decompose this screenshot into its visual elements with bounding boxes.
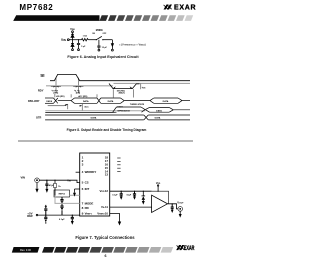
svg-text:INT: INT (85, 187, 90, 191)
capacitor C11 output (171, 204, 174, 210)
svg-text:6: 6 (82, 187, 84, 191)
C3 value label (49, 184, 55, 187)
svg-text:5 pF: 5 pF (81, 46, 86, 48)
ground under C3 (45, 189, 48, 193)
svg-text:CS: CS (85, 181, 89, 185)
svg-text:12: 12 (105, 189, 109, 193)
svg-text:DATA: DATA (108, 100, 114, 103)
svg-text:RDY: RDY (38, 89, 44, 93)
ground terminal under C2 (98, 49, 100, 51)
C1 value label (81, 46, 86, 48)
notch right timing tick (141, 84, 146, 90)
bus row3 tri-state line 2 (124, 101, 150, 106)
wire R1 to switch (88, 39, 96, 41)
reference wire to U1 pin9 (38, 214, 80, 216)
capacitor C1 5pF (77, 40, 80, 49)
U1 left pin numbers (82, 156, 84, 216)
svg-text:1 kΩ: 1 kΩ (83, 36, 88, 38)
bus row3 tri-state line 1 (58, 100, 71, 102)
row4 three-state line (45, 111, 112, 113)
capacitor C7 under U2 (60, 197, 63, 204)
wire U1 pin11 to op-amp input (110, 206, 152, 208)
RDY gray level right (114, 82, 191, 84)
VOUT label (177, 200, 184, 204)
U1 right pin numbers (105, 156, 109, 216)
gray net from U2 to U1 pin6 area (70, 194, 80, 196)
row4 hexagon close (117, 107, 146, 112)
svg-text:EXAR: EXAR (184, 245, 195, 252)
svg-text:Figure 7. Typical Connections: Figure 7. Typical Connections (75, 235, 135, 240)
VDD label op-amp supply (156, 182, 161, 185)
wire D1 to input node (72, 37, 74, 39)
VDD terminal (72, 31, 74, 33)
figure 7: typical connections (21, 153, 185, 226)
switch S1 label (96, 29, 104, 32)
C9 value label (112, 195, 118, 197)
svg-text:0.1µF: 0.1µF (112, 195, 118, 197)
header bar solid black swoosh (13, 15, 99, 21)
stub on U1 pin4 (76, 171, 80, 173)
svg-text:tDIS: tDIS (142, 86, 146, 89)
svg-text:11: 11 (105, 205, 108, 209)
svg-text:ON: ON (92, 33, 95, 35)
feedback loop wire (152, 191, 169, 204)
bus row3 transition X5 open (150, 98, 154, 103)
op-amp output wire (168, 204, 178, 209)
node bypass 1 (121, 191, 122, 192)
svg-text:10: 10 (105, 212, 109, 216)
svg-text:VDD: VDD (70, 27, 75, 31)
svg-text:VIN: VIN (21, 176, 26, 180)
bus row3 transition X3 (97, 98, 101, 103)
ground under D3 (142, 201, 145, 205)
diode D1 (clamp to VDD) (71, 34, 74, 37)
svg-text:RD: RD (41, 74, 45, 78)
RDY gray level left (46, 85, 113, 87)
bus row3 hexagon segment 3 (101, 98, 121, 103)
row4 high impedance hexagon open (113, 107, 117, 112)
bus row3 tri-state line 3 (182, 100, 190, 102)
svg-text:REF: REF (27, 214, 33, 218)
C10 value label (126, 195, 132, 197)
svg-text:DATA: DATA (156, 109, 162, 112)
ground under C11 (171, 210, 174, 213)
timing label t1H t0H (52, 89, 59, 95)
wire VDD to diode D1 (72, 33, 74, 35)
output connector J2 (178, 207, 183, 212)
svg-text:MP7682: MP7682 (19, 3, 53, 12)
capacitor C3 input filter (45, 180, 48, 189)
wire switch to sample node (103, 39, 113, 41)
header part number MP7682 (19, 3, 53, 12)
ground under J1 (35, 183, 38, 193)
VDD supply rail from U1 pin12 (110, 190, 152, 192)
node for resistor branch (54, 180, 55, 181)
bus row3 transition X2 open (71, 98, 75, 103)
figure 8: output enable and disable timing diagram (28, 74, 190, 120)
svg-text:7: 7 (82, 201, 84, 205)
bus row3 hexagon segment 2 (75, 98, 98, 103)
row5 transition X (144, 115, 149, 120)
row5 data hexagon long (45, 115, 144, 120)
footer stripe band (42, 247, 173, 253)
tDIS dimension label above bus (55, 94, 65, 98)
svg-text:DATA: DATA (155, 117, 161, 120)
timing label t1L t0L (74, 89, 80, 95)
capacitor C4 polarized upper (44, 205, 47, 215)
row5 data hexagon right (148, 115, 190, 120)
arrow into marker t2 (73, 86, 83, 88)
analog input label (21, 176, 26, 180)
EXAR logo footer (176, 245, 194, 252)
capacitor C8 under C7 (60, 204, 63, 216)
U1 right pin labels (97, 189, 105, 216)
R2 value label (58, 186, 61, 188)
notch left arrowhead (113, 86, 116, 88)
ground under C9 (120, 196, 123, 199)
svg-text:10µF: 10µF (126, 195, 132, 197)
svg-text:3: 3 (82, 163, 84, 167)
dimension arrow between rows (48, 104, 68, 109)
input connector J1 (35, 178, 40, 183)
header stripe band (100, 15, 194, 21)
data bus stub marks pins 18-14 (117, 158, 120, 172)
signal RD label with overline (40, 74, 44, 78)
VDD drop wire (157, 186, 159, 191)
node after VIN junction (78, 39, 79, 40)
VDD label (70, 27, 75, 31)
svg-text:VREF1: VREF1 (85, 212, 93, 216)
svg-text:5: 5 (82, 181, 84, 185)
svg-text:DATA: DATA (163, 100, 169, 103)
capacitor C9 bypass (120, 191, 123, 196)
wire VIN to resistor R1 (69, 39, 81, 41)
row4 transition X close (169, 107, 173, 112)
svg-text:Rev. 3.00: Rev. 3.00 (20, 248, 31, 252)
row4 tri-state line right (173, 109, 190, 111)
ground under J2 (179, 211, 182, 217)
svg-text:OFF: OFF (103, 33, 108, 35)
svg-text:6: 6 (105, 254, 107, 258)
svg-text:DATA: DATA (91, 117, 97, 120)
svg-text:VIN: VIN (61, 38, 66, 42)
arrow into marker t1 (51, 86, 61, 88)
switch S1 (96, 36, 104, 40)
notch marker line right (133, 89, 135, 97)
svg-text:(EN): (EN) (76, 93, 81, 95)
svg-text:WR/RDY: WR/RDY (85, 170, 97, 174)
timing marker line t1 (55, 78, 57, 94)
svg-text:1k: 1k (58, 186, 61, 188)
VIN terminal (67, 39, 69, 41)
threshold output label (119, 42, 146, 46)
node output (172, 203, 173, 204)
capacitor C5 polarized lower (44, 215, 47, 224)
bus row3 transition X4 close (121, 98, 125, 103)
svg-text:tACC (RD): tACC (RD) (78, 95, 88, 98)
signal RD waveform (50, 74, 190, 80)
IC U1 MP7682 body (80, 153, 110, 216)
wire J1 to U1 pin5 (39, 180, 79, 182)
svg-text:DATA: DATA (46, 100, 52, 103)
svg-text:OTR: OTR (36, 116, 41, 119)
svg-text:REF02: REF02 (59, 194, 66, 196)
resistor R2 vertical (54, 180, 57, 195)
R1 value label (83, 36, 88, 38)
capacitor C10 bypass (133, 191, 136, 196)
bus row3 transition X6 close (178, 98, 182, 103)
node VDD on rail (158, 191, 159, 192)
svg-text:DATA: DATA (83, 100, 89, 103)
svg-text:(DIS): (DIS) (53, 93, 58, 95)
notch timing label (117, 89, 125, 94)
notch marker line left (112, 89, 114, 97)
svg-text:DB0–DB7: DB0–DB7 (28, 100, 40, 103)
row4 gray level (45, 110, 145, 112)
ground terminal under C1 (78, 49, 80, 51)
svg-text:0.1µF: 0.1µF (59, 219, 65, 221)
zener diode D3 (142, 191, 146, 201)
bus row3 hexagon segment 1 (45, 98, 54, 103)
svg-text:9: 9 (82, 212, 84, 216)
reference input terminal (36, 214, 38, 216)
U1 left pin labels (85, 170, 97, 216)
bias source arrow (111, 40, 113, 50)
VDD terminal op-amp (157, 185, 158, 186)
ground under C10 (133, 196, 136, 199)
figure 6: analog input equivalent circuit (61, 27, 146, 51)
svg-text:Figure 6. Analog Input Equiva: Figure 6. Analog Input Equivalent Circui… (67, 55, 139, 59)
node C4 (45, 215, 46, 216)
node bypass 2 (134, 191, 135, 192)
signal RDY label (38, 89, 44, 93)
op-amp U3 (152, 195, 168, 212)
VIN pin label at chip (67, 180, 71, 183)
svg-text:tDIS (RD): tDIS (RD) (56, 95, 65, 98)
figure 6 caption (67, 55, 139, 59)
node C6 (72, 215, 73, 216)
svg-text:THREE-STATE: THREE-STATE (130, 103, 145, 106)
voltage reference U2 box (54, 190, 70, 197)
row5 OTR label (36, 116, 41, 119)
capacitor C6 bypass (71, 215, 74, 221)
svg-text:12 pF: 12 pF (102, 47, 108, 49)
svg-text:Figure 8. Output Enable and D: Figure 8. Output Enable and Disable Timi… (67, 128, 147, 132)
C2 value label (102, 47, 108, 49)
+5V reference input label (27, 212, 33, 219)
RDY notch waveform (109, 84, 140, 89)
separator rule below figure 8 caption (18, 140, 193, 142)
row4 transition X open (145, 107, 149, 112)
bus row3 transition X1 (54, 98, 58, 103)
svg-text:MODE: MODE (85, 201, 94, 205)
svg-text:tACC: tACC (84, 105, 89, 108)
row4 data hexagon (150, 107, 170, 112)
node on input wire (46, 180, 47, 181)
bus DB0-DB7 label (28, 100, 40, 103)
ground arrow at U1 pin6 (73, 189, 80, 197)
ground terminal under D2 (72, 49, 74, 51)
figure 8 caption (67, 128, 147, 132)
svg-text:EXAR: EXAR (174, 5, 196, 12)
EXAR logo top right (164, 5, 197, 12)
tACC dimension label above bus (71, 94, 97, 98)
footer page number 6 (105, 254, 107, 258)
gray net to U1 pin7 (55, 196, 80, 204)
diode D2 (clamp to ground) (71, 40, 74, 49)
node zener (143, 191, 144, 192)
dimension tick right (80, 104, 90, 111)
notch right arrowhead (130, 86, 133, 88)
resistor R1 (82, 39, 89, 41)
svg-text:≈ (VTHRESHOLD + VBIAS): ≈ (VTHRESHOLD + VBIAS) (119, 42, 146, 46)
svg-text:IMPEDANCE: IMPEDANCE (117, 110, 130, 113)
svg-text:8: 8 (82, 206, 84, 210)
figure 7 caption (75, 235, 135, 240)
capacitor C2 12pF (97, 40, 100, 50)
footer revision box (12, 247, 40, 253)
node input junction (72, 39, 73, 40)
ground drop from U1 pin10 (110, 214, 122, 226)
VIN label (61, 38, 66, 42)
0.1uF label (59, 219, 65, 221)
svg-text:4: 4 (82, 170, 84, 174)
svg-text:VOUT: VOUT (177, 200, 184, 204)
svg-text:RD: RD (85, 206, 89, 210)
switch S1 contact labels (92, 33, 107, 35)
svg-text:(MAX): (MAX) (119, 92, 125, 95)
bias terminal (112, 49, 114, 51)
ground under C6 (71, 221, 74, 225)
row4 high impedance label (117, 106, 130, 112)
svg-text:MODE: MODE (96, 29, 104, 32)
bus row3 hexagon segment 4 (154, 98, 178, 103)
svg-text:13: 13 (105, 173, 109, 177)
timing marker line t2 (77, 78, 79, 94)
